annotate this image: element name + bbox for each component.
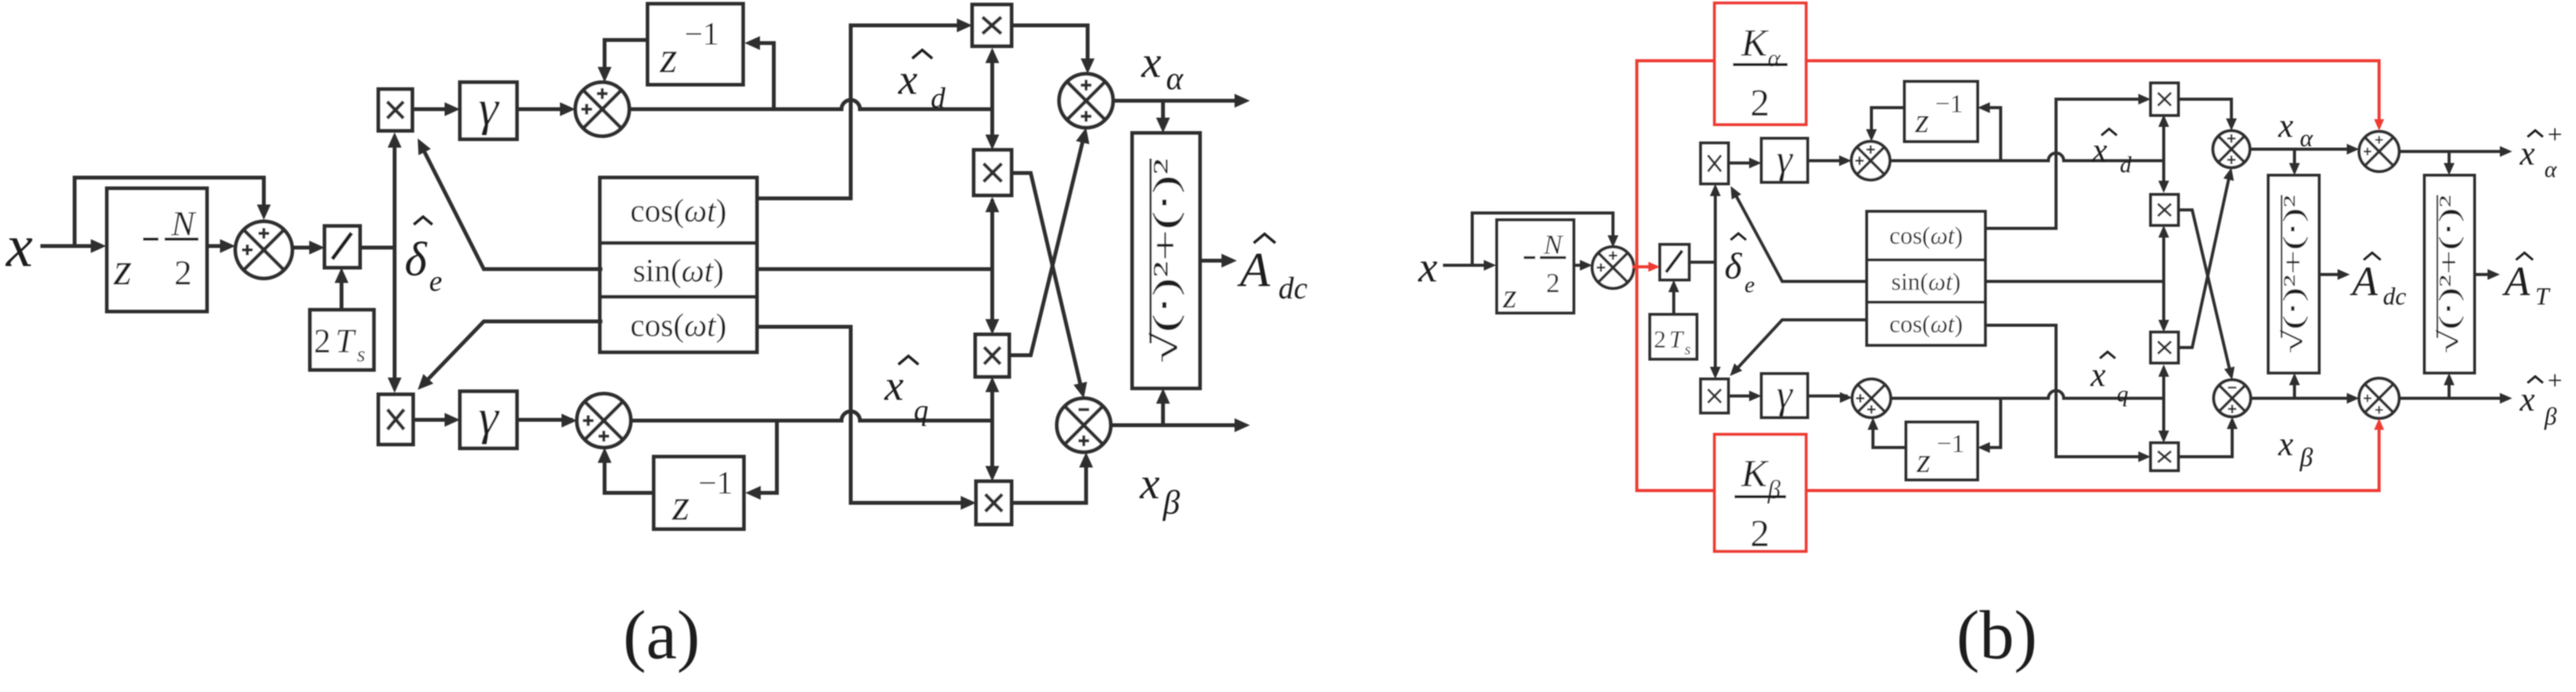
multiplier box 4 (b) bbox=[2151, 443, 2178, 471]
wire: x_beta+ branch into magnitude block A_T (b) bbox=[2448, 379, 2451, 398]
summing junction S5 (a) bbox=[1057, 398, 1111, 452]
wire: multiplier 1 to summing junction S4 (b) bbox=[2178, 99, 2231, 126]
svg-text:γ: γ bbox=[1777, 138, 1794, 181]
wire: x input to delay block (a) bbox=[42, 245, 100, 248]
wire red: error to K_alpha and K_beta blocks (b) bbox=[1637, 61, 1715, 491]
svg-text:A: A bbox=[2350, 258, 2378, 304]
wire red: K_alpha output to multiplier M_alpha (b) bbox=[1806, 61, 2379, 125]
svg-text:z: z bbox=[1915, 101, 1929, 140]
wire: multiplier 1 to summing junction S4 (a) bbox=[1011, 25, 1088, 68]
wire: multiplier 3 diagonal to summing junction S4 (a) bbox=[1009, 134, 1085, 355]
summing junction S3 (b) bbox=[1852, 379, 1891, 418]
svg-text:x: x bbox=[2091, 131, 2108, 169]
wire: x_alpha branch into magnitude block (a) bbox=[1161, 101, 1165, 127]
gamma block bottom (a) bbox=[460, 391, 517, 448]
wire: feedforward x to summing junction S1 (b) bbox=[1472, 213, 1613, 265]
wire: S2 feedback branch to z^-1 input (a) bbox=[751, 43, 774, 109]
wire: multiplier 4 to summing junction S5 (a) bbox=[1011, 458, 1086, 503]
wire: x input to delay block (b) bbox=[1445, 264, 1491, 267]
wire: xT to gamma top (b) bbox=[1728, 161, 1755, 165]
gamma block top (a) bbox=[460, 82, 517, 139]
svg-text:cos(ωt): cos(ωt) bbox=[630, 194, 726, 229]
multiplier box 1 (a) bbox=[972, 5, 1011, 46]
wire: cos row1 to multiplier box 1 (b) bbox=[1985, 99, 2146, 228]
magnitude block sqrt A_T (b) bbox=[2424, 175, 2474, 373]
svg-text:K: K bbox=[1741, 21, 1769, 64]
svg-text:z: z bbox=[113, 244, 132, 294]
svg-text:(a): (a) bbox=[623, 597, 700, 674]
divide block (a) bbox=[325, 226, 360, 268]
svg-text:x: x bbox=[1139, 458, 1160, 508]
svg-text:q: q bbox=[2117, 381, 2128, 407]
wire: cos row3 to multiplier xB diagonal (b) bbox=[1734, 320, 1867, 372]
svg-text:2: 2 bbox=[1751, 81, 1770, 124]
wire: gamma bottom to S3 (b) bbox=[1808, 394, 1846, 398]
multiplier box 2 (a) bbox=[974, 150, 1011, 195]
multiplier box 3 (b) bbox=[2151, 332, 2178, 363]
wire: gamma to summing junction S2 (a) bbox=[517, 108, 569, 111]
svg-text:T: T bbox=[2535, 282, 2551, 310]
svg-text:−1: −1 bbox=[685, 17, 719, 52]
svg-text:cos(ωt): cos(ωt) bbox=[1889, 221, 1962, 249]
wire: multiplier 4 to summing junction S5 (b) bbox=[2178, 421, 2232, 457]
svg-text:δ: δ bbox=[405, 234, 428, 286]
svg-text:s: s bbox=[357, 343, 365, 367]
svg-text:z: z bbox=[1502, 276, 1517, 315]
wire red: K_beta output to multiplier M_beta (b) bbox=[1806, 424, 2379, 491]
wire: x_beta branch into magnitude block (b) bbox=[2293, 379, 2296, 398]
wire: x_q tee to multiplier boxes 3 and 4 (a) bbox=[991, 383, 995, 475]
wire: S4 output x_alpha (a) bbox=[1113, 99, 1244, 103]
wire: 2Ts to divide block (a) bbox=[340, 274, 344, 310]
svg-text:e: e bbox=[1745, 272, 1755, 298]
svg-text:K: K bbox=[1741, 451, 1769, 494]
svg-text:α: α bbox=[2300, 124, 2314, 151]
wire: cos row3 to multiplier box 4 (b) bbox=[1985, 325, 2146, 457]
multiplier circle M_alpha (b) bbox=[2359, 131, 2399, 171]
wire: multiplier 2 diagonal to summing junction S5 (a) bbox=[1011, 173, 1082, 392]
wire: sin row to right multiplier boxes 2 and 3 (a) bbox=[757, 201, 992, 328]
wire: xB to gamma bottom (a) bbox=[413, 418, 454, 422]
svg-text:x: x bbox=[5, 212, 33, 279]
summing junction S4 (a) bbox=[1059, 74, 1113, 128]
wire: S4 output x_alpha to M_alpha (b) bbox=[2250, 148, 2353, 151]
wire: M_alpha output x_alpha+ (b) bbox=[2399, 150, 2506, 153]
svg-text:s: s bbox=[1685, 340, 1691, 358]
svg-text:−1: −1 bbox=[698, 466, 733, 501]
svg-text:2: 2 bbox=[314, 322, 331, 360]
wire: cos row1 to multiplier box 1 (a) bbox=[757, 25, 966, 198]
svg-text:T: T bbox=[335, 322, 357, 360]
magnitude block sqrt (a) bbox=[1132, 133, 1200, 388]
svg-text:2: 2 bbox=[1654, 325, 1666, 353]
svg-text:β: β bbox=[1767, 476, 1781, 504]
block z^-1 top (a) bbox=[648, 4, 743, 85]
svg-text:γ: γ bbox=[478, 389, 500, 445]
wire red: S1 error to divide block (b) bbox=[1634, 265, 1655, 268]
svg-text:z: z bbox=[671, 480, 690, 530]
divide block (b) bbox=[1660, 245, 1689, 280]
svg-text:x: x bbox=[2278, 425, 2294, 463]
block z^-1 top (b) bbox=[1905, 82, 1978, 141]
wire: magnitude output A_dc (b) bbox=[2319, 273, 2344, 276]
wire: xT to gamma top (a) bbox=[412, 108, 454, 111]
summing junction S2 (b) bbox=[1851, 141, 1890, 180]
wire: sin row to multiplier xT diagonal (b) bbox=[1734, 191, 1867, 281]
summing junction S1 (b) bbox=[1592, 247, 1634, 288]
svg-text:x: x bbox=[898, 56, 918, 104]
summing junction S5 (b) bbox=[2214, 380, 2251, 417]
wire: multiplier 3 diagonal to S4 (b) bbox=[2178, 174, 2230, 348]
svg-text:x: x bbox=[2278, 107, 2294, 145]
wire: S2 feedback branch to z^-1 top (b) bbox=[1984, 108, 2001, 161]
svg-text:cos(ωt): cos(ωt) bbox=[630, 308, 726, 344]
svg-text:α: α bbox=[2544, 157, 2558, 182]
svg-text:d: d bbox=[2120, 152, 2132, 178]
summing junction S3 (a) bbox=[577, 394, 631, 447]
block 2Ts (a) bbox=[310, 310, 374, 370]
magnitude block sqrt A_dc (b) bbox=[2268, 175, 2319, 373]
wire: S3 feedback branch to z^-1 bottom (b) bbox=[1984, 398, 2001, 447]
multiplier box 4 (a) bbox=[976, 481, 1011, 524]
block z^-1 bottom (a) bbox=[654, 457, 744, 529]
svg-text:α: α bbox=[1166, 62, 1184, 97]
svg-text:dc: dc bbox=[1278, 271, 1308, 305]
wire: S5 output x_beta to M_beta (b) bbox=[2251, 397, 2353, 400]
wire: xB to gamma bottom (b) bbox=[1728, 394, 1755, 398]
wire: x_d line from S2 to right multipliers (a) bbox=[629, 100, 992, 109]
summing junction S1 (a) bbox=[235, 221, 292, 278]
svg-text:−1: −1 bbox=[1935, 90, 1963, 118]
wire: x_alpha branch into magnitude block (b) bbox=[2293, 149, 2296, 169]
wire: x_alpha+ branch into magnitude block A_T (b) bbox=[2448, 151, 2451, 169]
svg-text:2: 2 bbox=[1751, 511, 1770, 554]
multiplier box 3 (a) bbox=[975, 334, 1009, 377]
svg-text:e: e bbox=[429, 265, 442, 298]
svg-text:δ: δ bbox=[1725, 246, 1742, 287]
gain block K_alpha/2 (b) bbox=[1715, 3, 1806, 125]
wire: multiplier 2 diagonal to S5 (b) bbox=[2178, 210, 2231, 374]
wire: x_q tee to multiplier boxes 3 and 4 (b) bbox=[2162, 369, 2165, 438]
svg-text:2: 2 bbox=[1546, 268, 1560, 298]
wire: magnitude output A_dc (a) bbox=[1200, 259, 1231, 263]
svg-text:z: z bbox=[659, 32, 678, 82]
svg-text:x: x bbox=[2519, 381, 2535, 418]
wire: S1 to divide block (a) bbox=[292, 246, 317, 250]
wire: x_q line from S3 to right multipliers (b) bbox=[1891, 391, 2164, 398]
wire: 2Ts to divide block (b) bbox=[1672, 286, 1675, 314]
gamma block top (b) bbox=[1761, 138, 1808, 182]
block z^-N/2 (b) bbox=[1497, 220, 1574, 313]
svg-text:sin(ωt): sin(ωt) bbox=[1891, 268, 1961, 295]
svg-text:sin(ωt): sin(ωt) bbox=[633, 254, 724, 289]
multiplier box xB (a) bbox=[378, 394, 413, 444]
wire: gamma top to S2 (b) bbox=[1808, 159, 1845, 162]
multiplier circle M_beta (b) bbox=[2359, 378, 2399, 418]
svg-text:N: N bbox=[1543, 229, 1564, 260]
svg-text:+: + bbox=[2548, 121, 2562, 149]
wire: S5 output x_beta (a) bbox=[1111, 424, 1244, 428]
oscillator table block cos sin cos (b) bbox=[1867, 211, 1985, 345]
svg-text:x: x bbox=[2519, 135, 2535, 172]
wire: x_beta branch into magnitude block (a) bbox=[1161, 394, 1165, 425]
wire: delay block to S1 (a) bbox=[207, 245, 229, 248]
svg-text:2: 2 bbox=[175, 253, 192, 292]
svg-text:−1: −1 bbox=[1937, 430, 1964, 458]
svg-text:x: x bbox=[1141, 37, 1161, 87]
summing junction S2 (a) bbox=[575, 82, 629, 136]
svg-text:dc: dc bbox=[2383, 282, 2406, 310]
wire: x_d tee to multiplier boxes 1 and 2 (a) bbox=[991, 54, 995, 144]
svg-text:cos(ωt): cos(ωt) bbox=[1889, 310, 1962, 338]
wire: sin row to multiplier xT diagonal (a) bbox=[421, 145, 601, 269]
block z^-N/2 (a) bbox=[107, 188, 207, 311]
svg-text:β: β bbox=[2544, 402, 2557, 430]
svg-text:x: x bbox=[1418, 244, 1438, 291]
multiplier box xB (b) bbox=[1701, 379, 1728, 413]
block z^-1 bottom (b) bbox=[1906, 422, 1978, 480]
multiplier box xT (a) bbox=[378, 89, 412, 131]
wire: cos row3 to multiplier xB diagonal (a) bbox=[422, 321, 601, 385]
wire: S3 feedback branch to z^-1 bottom input (a) bbox=[751, 421, 777, 493]
svg-text:(b): (b) bbox=[1957, 597, 2038, 674]
svg-text:+: + bbox=[2548, 367, 2562, 395]
multiplier box 1 (b) bbox=[2151, 83, 2178, 115]
wire: gamma bottom to summing junction S3 (a) bbox=[517, 418, 571, 422]
svg-text:β: β bbox=[1162, 484, 1180, 521]
wire: x_q line from S3 to right multipliers (a) bbox=[631, 411, 992, 421]
svg-text:T: T bbox=[1669, 325, 1685, 353]
gain block K_beta/2 (b) bbox=[1715, 434, 1806, 551]
oscillator table block cos sin cos (a) bbox=[600, 178, 757, 352]
wire: z^-1 top output to S2 (b) bbox=[1871, 108, 1905, 135]
svg-text:N: N bbox=[171, 204, 197, 243]
wire: x_d line from S2 to right multipliers (b) bbox=[1890, 153, 2164, 161]
svg-text:x: x bbox=[2090, 356, 2106, 394]
wire: sin row to right multiplier boxes 2 and 3 (b) bbox=[1985, 230, 2164, 328]
svg-text:d: d bbox=[931, 82, 946, 115]
svg-text:x: x bbox=[884, 362, 904, 410]
wire: feedforward x to summing junction S1 (a) bbox=[75, 178, 264, 246]
wire: divide output delta_e to multipliers (a) bbox=[360, 138, 395, 387]
svg-text:β: β bbox=[2299, 444, 2313, 472]
wire: delay block to S1 (b) bbox=[1574, 264, 1588, 267]
summing junction S4 (b) bbox=[2213, 131, 2250, 168]
svg-text:γ: γ bbox=[1777, 373, 1794, 417]
multiplier box 2 (b) bbox=[2151, 195, 2178, 225]
wire: divide output delta_e vertical (b) bbox=[1689, 190, 1715, 373]
wire: z^-1 output to S2 top (a) bbox=[605, 40, 648, 76]
svg-text:A: A bbox=[1237, 242, 1271, 297]
wire: M_beta output x_beta+ (b) bbox=[2399, 397, 2506, 400]
svg-text:γ: γ bbox=[478, 80, 500, 136]
gamma block bottom (b) bbox=[1761, 374, 1808, 418]
svg-text:A: A bbox=[2502, 258, 2531, 304]
block 2Ts (b) bbox=[1650, 314, 1697, 359]
wire: z^-1 bottom output to S3 (b) bbox=[1873, 424, 1906, 447]
wire: cos row3 to multiplier box 4 (a) bbox=[757, 327, 970, 503]
multiplier box xT (b) bbox=[1701, 143, 1728, 184]
svg-text:z: z bbox=[1916, 441, 1931, 480]
wire: magnitude output A_T (b) bbox=[2474, 273, 2494, 276]
svg-text:q: q bbox=[914, 394, 928, 427]
wire: x_d tee to multiplier boxes 1 and 2 (b) bbox=[2162, 119, 2165, 188]
svg-text:α: α bbox=[1768, 44, 1781, 72]
wire: z^-1 bottom output to S3 (a) bbox=[605, 454, 654, 493]
